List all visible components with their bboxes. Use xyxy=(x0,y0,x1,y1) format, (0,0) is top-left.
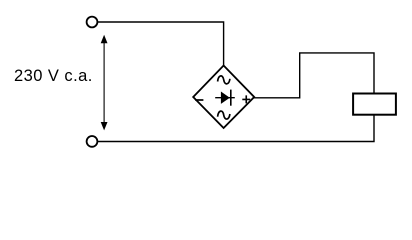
diode symbol inside bridge xyxy=(215,90,235,106)
voltage arrow (double-headed, 230 V a.c.) xyxy=(101,35,108,131)
load resistor (rectangle) xyxy=(353,94,396,115)
AC mark (~) bottom xyxy=(218,111,230,119)
terminal (top input) xyxy=(87,17,98,28)
svg-text:230 V c.a.: 230 V c.a. xyxy=(14,67,93,85)
bridge rectifier outline (diamond) xyxy=(193,66,254,129)
wire: top terminal to bridge AC input xyxy=(97,22,223,66)
wire: bottom terminal to load return xyxy=(97,115,374,142)
terminal (bottom input) xyxy=(87,136,98,147)
AC mark (~) top xyxy=(218,76,230,84)
polarity label plus xyxy=(242,95,250,103)
wire: bridge + output to load xyxy=(253,53,374,98)
polarity label minus xyxy=(195,99,203,101)
